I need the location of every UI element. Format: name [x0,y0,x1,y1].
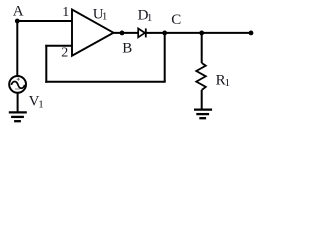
voltage source V1 [9,76,26,93]
wire (to pin 2) [45,45,72,47]
wire [17,93,19,113]
wire (feedback drop) [164,33,166,82]
wire (op-amp output bus to right terminal) [114,32,252,34]
node B [120,31,125,36]
node A [15,19,20,24]
svg-text:1: 1 [102,11,108,23]
svg-text:2: 2 [61,46,68,61]
svg-text:A: A [13,3,24,19]
ground (V1) [9,112,27,121]
svg-text:C: C [171,12,181,28]
resistor R1 [196,63,206,90]
minus sign of V1 [15,88,20,90]
diode D1 [138,29,145,38]
node (R1 top) [199,31,204,36]
op-amp U1 [72,10,114,56]
wire [16,20,18,76]
wire (feedback bottom) [45,81,165,83]
svg-text:1: 1 [38,98,44,110]
plus sign of V1 [17,78,20,81]
ground (R1) [194,110,212,119]
wire (feedback riser) [45,45,47,83]
svg-text:1: 1 [147,12,153,24]
wire [201,33,203,63]
terminal node (right end) [249,31,254,36]
wire [201,90,203,110]
svg-text:1: 1 [62,5,69,20]
wire [17,20,72,22]
node C [162,31,167,36]
svg-text:1: 1 [225,77,231,89]
svg-text:B: B [122,41,132,57]
